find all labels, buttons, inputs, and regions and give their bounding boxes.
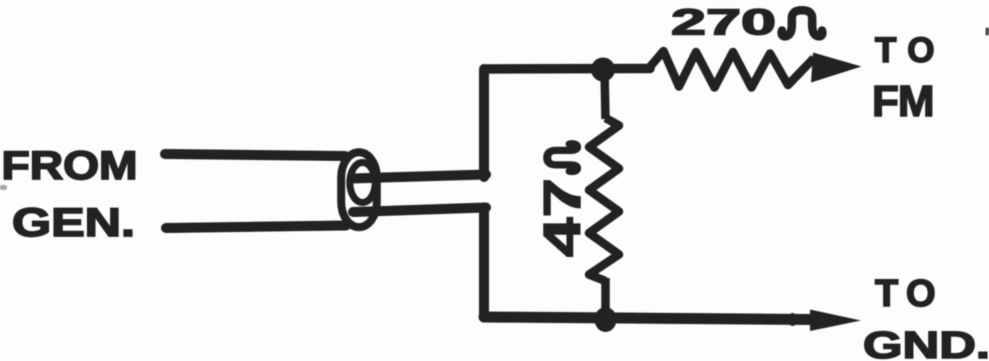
label 47 ohm omega symbol (rotated) (547, 144, 577, 172)
stray mark left edge (0, 185, 7, 190)
resistor 47 ohm zigzag (589, 118, 619, 281)
svg-text:GEN.: GEN. (12, 201, 135, 245)
resistor 270 ohm zigzag (649, 51, 814, 88)
label 270 value digits (671, 2, 776, 43)
wire lower conductor to vertical line (353, 208, 486, 213)
label GND. (863, 325, 989, 361)
svg-text:FM: FM (872, 77, 934, 126)
wire vertical upper segment to top rail (479, 69, 489, 177)
wire bottom lead from generator (166, 226, 346, 229)
wire top rail (484, 64, 650, 74)
wire from top node down to 47 ohm resistor (605, 70, 606, 119)
wire top lead from generator (165, 154, 345, 156)
wire bottom rail (484, 317, 812, 320)
label FROM (2, 144, 138, 188)
label FM (872, 77, 934, 126)
svg-text:GND.: GND. (863, 325, 989, 361)
svg-text:FROM: FROM (2, 144, 138, 188)
svg-text:47: 47 (534, 178, 592, 257)
node junction dot top (591, 58, 615, 82)
svg-text:TO: TO (875, 273, 944, 315)
label TO (FM output) (875, 31, 946, 70)
label 47 value digits (rotated) (534, 178, 592, 257)
connector plug outer shell (341, 152, 377, 227)
svg-text:TO: TO (875, 31, 946, 70)
svg-text:270: 270 (671, 2, 776, 43)
label GEN. (12, 201, 135, 245)
label TO (GND output) (875, 273, 944, 315)
wire vertical lower segment to bottom rail (479, 208, 489, 318)
arrow head to GND (810, 310, 861, 332)
wire bump on GND shaft (788, 313, 797, 326)
wire 47 ohm bottom lead (601, 278, 610, 318)
arrow head to FM (811, 53, 862, 83)
stray mark right edge (986, 28, 989, 36)
node junction dot bottom (595, 307, 617, 332)
label 270 ohm omega symbol (782, 10, 823, 36)
wire upper conductor to vertical line (352, 175, 486, 179)
connector plug inner pin circle (350, 163, 375, 203)
